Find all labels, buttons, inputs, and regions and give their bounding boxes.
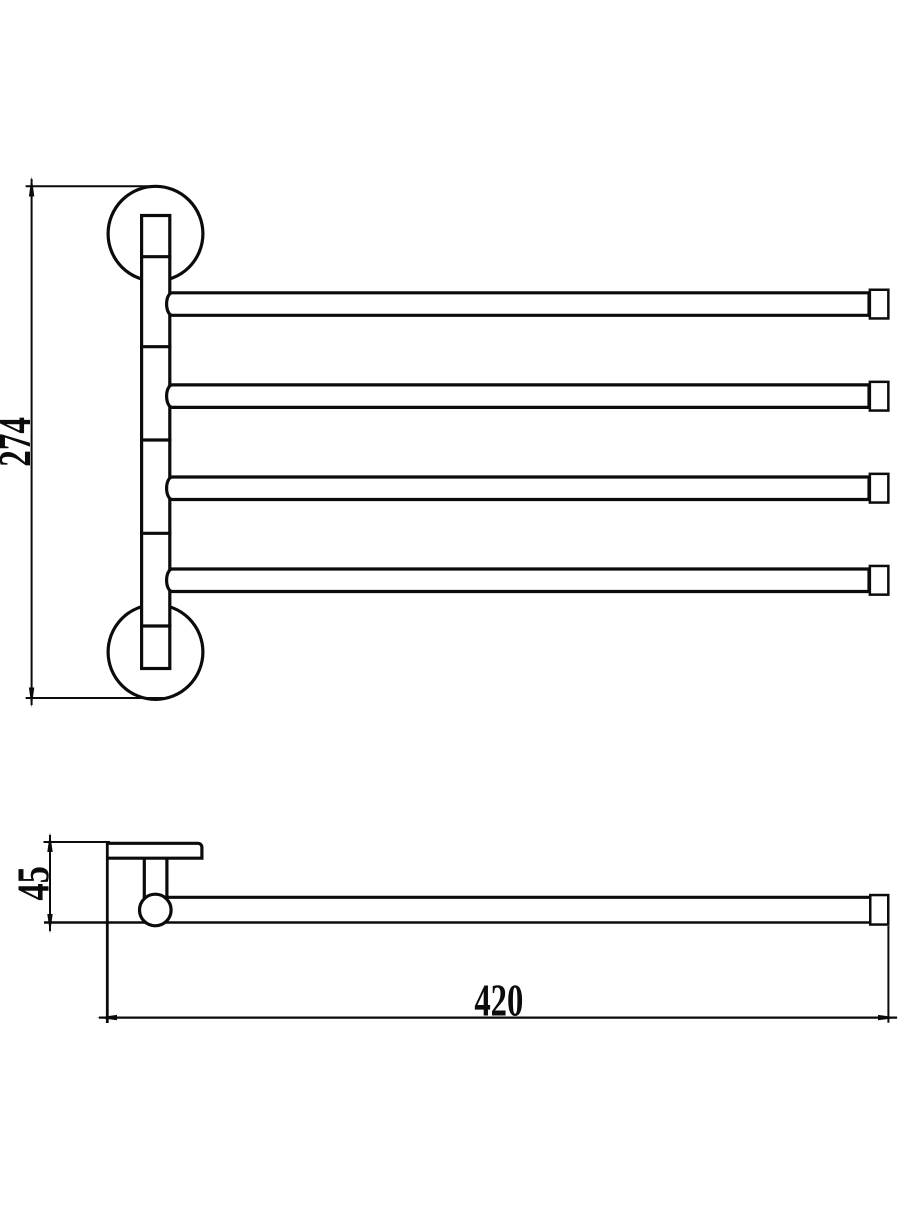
- arrow right (420): [878, 1015, 898, 1020]
- swivel bar 4 (front view): [167, 569, 869, 592]
- bar 4 end cap: [870, 566, 889, 595]
- post joint line 2: [140, 345, 171, 348]
- arrow down (45): [47, 914, 52, 934]
- bar 2 end cap: [870, 382, 889, 411]
- bar top edge (side view): [166, 896, 870, 899]
- extension line top (274 dim): [26, 185, 161, 187]
- swivel bar 3 (front view): [167, 477, 869, 500]
- bar bottom edge / 45 lower extension line: [44, 921, 870, 924]
- bar 3 end cap: [870, 474, 889, 503]
- dimension line 420: [99, 1016, 897, 1018]
- svg-text:420: 420: [474, 974, 523, 1026]
- post joint line 4: [140, 532, 171, 535]
- swivel bar 1 (front view): [167, 293, 869, 316]
- top mounting circle (front view, upper escutcheon): [108, 186, 203, 281]
- bracket stem right edge (side view): [165, 858, 168, 898]
- post joint line 5: [140, 624, 171, 627]
- arrow up (274): [29, 177, 34, 197]
- arrow up (45): [47, 833, 52, 853]
- svg-text:45: 45: [8, 866, 59, 900]
- dimension line 274: [31, 179, 33, 705]
- swivel bar 2 (front view): [167, 385, 869, 408]
- arrow down (274): [29, 688, 34, 708]
- post joint line 3: [140, 438, 171, 441]
- vertical post (front view): [142, 216, 170, 669]
- bar end cap (side view): [870, 895, 888, 925]
- extension line bottom (274 dim): [26, 697, 167, 699]
- dimension line 45: [49, 835, 51, 931]
- right extension line (420 dim): [887, 926, 889, 1023]
- post joint line 1: [140, 255, 171, 258]
- bracket stem left edge (side view): [143, 858, 146, 902]
- bottom mounting circle (front view, lower escutcheon): [108, 605, 203, 700]
- wall plate (side view): [109, 843, 202, 858]
- arrow left (420): [97, 1015, 117, 1020]
- wall line / left extension (side view): [106, 842, 109, 1023]
- pivot circle (side view): [140, 894, 172, 926]
- bar 1 end cap: [870, 290, 889, 319]
- 45 upper extension line: [44, 841, 111, 843]
- svg-text:274: 274: [0, 417, 40, 467]
